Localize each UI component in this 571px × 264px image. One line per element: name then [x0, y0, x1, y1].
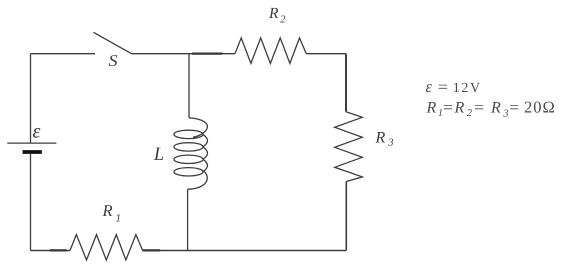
svg-text:R: R [102, 201, 113, 220]
svg-text:R: R [454, 99, 465, 116]
svg-text:2: 2 [467, 108, 473, 119]
svg-text:1: 1 [116, 212, 122, 224]
svg-text:R: R [426, 99, 437, 116]
svg-text:R: R [268, 5, 279, 22]
svg-text:R: R [490, 99, 501, 116]
svg-text:=: = [474, 99, 484, 116]
svg-text:R: R [375, 130, 386, 147]
svg-text:20Ω: 20Ω [524, 97, 556, 116]
svg-text:S: S [109, 51, 118, 70]
svg-text:=: = [443, 99, 453, 116]
svg-text:12V: 12V [453, 81, 482, 96]
svg-text:3: 3 [502, 109, 508, 120]
svg-text:2: 2 [280, 15, 286, 26]
svg-text:L: L [153, 144, 164, 165]
svg-text:3: 3 [387, 138, 393, 149]
svg-text:=: = [438, 79, 448, 96]
svg-text:ε: ε [426, 77, 433, 96]
svg-text:ε: ε [33, 121, 41, 143]
svg-text:=: = [510, 99, 520, 116]
